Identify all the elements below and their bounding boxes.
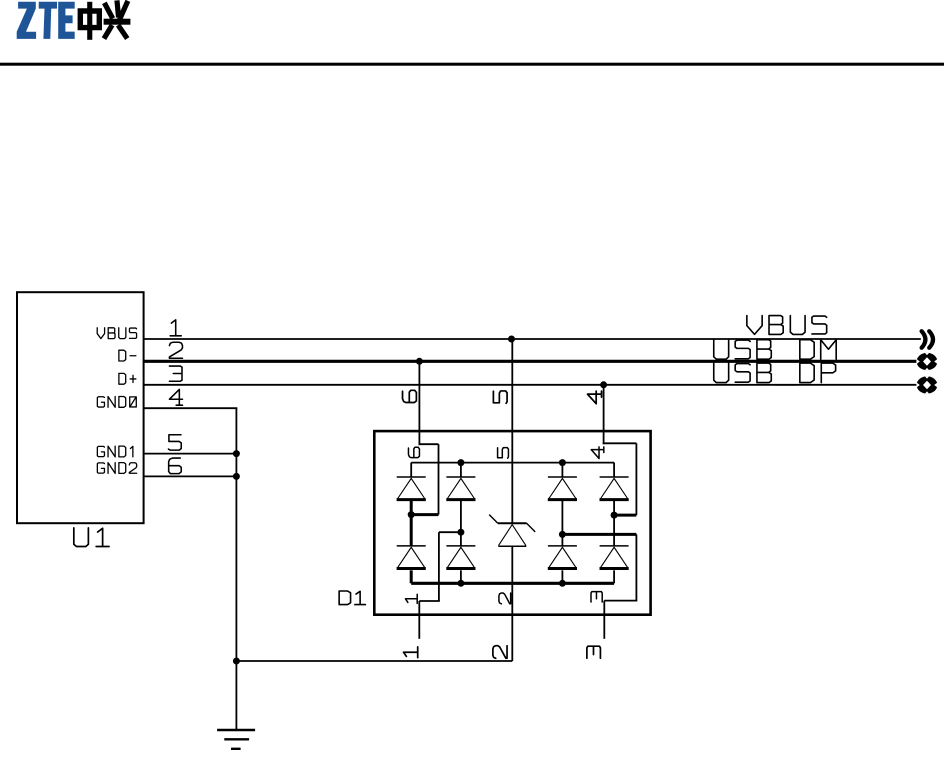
- D1 pin label 6 (inside): [408, 447, 419, 457]
- D1 pin number 6 (outside): [403, 390, 417, 402]
- U1 pin name D+: [119, 373, 136, 384]
- junction GND2: [233, 473, 240, 480]
- U1 pin name VBUS: [97, 328, 136, 339]
- diode D1-D upper: [600, 477, 629, 500]
- wire D1 pin4 jog down: [635, 443, 637, 515]
- wire D1 pin1 jog down: [438, 532, 440, 601]
- ESD array D1 body: [374, 431, 650, 615]
- wire USB_DM net U1 pin2 (thick): [144, 360, 917, 363]
- D1 pin number 5 (outside): [493, 391, 507, 403]
- diode D1-C upper: [548, 477, 577, 500]
- U1 pin number 6: [169, 458, 182, 474]
- wire D1 pin1 stub: [418, 601, 420, 639]
- wire GND0 from U1 pin4: [144, 407, 238, 409]
- net label VBUS: [747, 316, 827, 335]
- junction ground link: [233, 658, 240, 665]
- D1 pin label 1 (inside): [405, 594, 417, 603]
- ZTE logo letter E: [58, 2, 74, 39]
- net label USB_DM: [714, 340, 836, 362]
- ZTE logo letter T: [39, 2, 57, 39]
- D1 pin number 3 (outside): [587, 646, 601, 658]
- wire ground link to D1 pin2: [236, 660, 512, 662]
- D1 pin number 2 (outside): [493, 646, 507, 659]
- logo hanzi zhong: [78, 8, 102, 30]
- wire diode C cathode stub: [561, 463, 563, 477]
- U1 pin name GND1: [97, 446, 133, 457]
- wire D1 pin3 from diode C mid (thick): [562, 533, 636, 536]
- junction diode C mid: [559, 531, 566, 538]
- diode D1-B lower: [446, 546, 475, 569]
- junction USB_DP to D1 pin4: [600, 381, 607, 388]
- wire diode C mid vertical: [561, 500, 563, 546]
- logo hanzi xing: [105, 3, 127, 36]
- ground symbol: [217, 730, 255, 749]
- diode D1-D lower: [600, 546, 629, 569]
- wire diode C anode to bus: [561, 570, 563, 583]
- wire D1 pin2 vertical zener anode to ground link: [511, 546, 513, 661]
- D1 pin label 5 (inside): [498, 448, 509, 459]
- wire D1 pin1 from diode B mid: [439, 531, 461, 533]
- wire D1 pin3 jog down: [635, 534, 637, 600]
- D1 pin number 4 (outside): [587, 391, 601, 404]
- wire diode D anode to bus: [613, 570, 615, 583]
- off-page connector VBUS (output chevrons): [922, 331, 933, 348]
- U1 pin name GND2: [97, 463, 136, 474]
- U1 pin number 4: [169, 389, 182, 405]
- junction USB_DM to D1 pin6: [416, 358, 423, 365]
- wire D1 top bus: [411, 462, 614, 464]
- wire VBUS net U1 pin1 to off-page: [144, 338, 921, 340]
- wire D1 pin3 stub: [603, 601, 605, 639]
- wire D1 pin6 jog horizontal: [419, 443, 439, 445]
- header rule: [0, 63, 944, 66]
- off-page connector USB_DP (bidirectional): [916, 376, 937, 394]
- wire D1 pin6 vertical: [418, 361, 420, 445]
- junction top bus diode B: [457, 459, 464, 466]
- wire ground vertical: [235, 408, 237, 730]
- U1 pin name GND0: [97, 397, 136, 408]
- junction diode D mid: [611, 512, 618, 519]
- ZTE logo letter Z: [17, 2, 36, 39]
- D1 pin label 3 (inside): [591, 592, 602, 602]
- wire D1 pin6 to diode A mid (thick): [411, 513, 438, 516]
- diode D1-B upper: [446, 477, 475, 500]
- wire D1 pin5 vertical: [511, 339, 513, 523]
- wire diode A anode to bus (thick): [410, 570, 413, 583]
- diode D1-A lower: [397, 546, 426, 569]
- junction diode A mid: [408, 511, 415, 518]
- wire GND1 from U1 pin5: [144, 453, 237, 455]
- D1 pin label 4 (inside): [591, 447, 604, 459]
- junction bottom bus diode B: [457, 580, 464, 587]
- junction VBUS to D1 pin5: [508, 336, 515, 343]
- designator U1: [74, 528, 109, 547]
- designator D1: [339, 591, 365, 605]
- wire USB_DP net U1 pin3: [144, 384, 917, 386]
- diode D1-C lower: [548, 546, 577, 569]
- wire D1 pin4 jog horizontal: [603, 442, 637, 444]
- junction GND1: [233, 450, 240, 457]
- junction top bus diode C: [559, 459, 566, 466]
- zener diode D1 center: [489, 515, 535, 547]
- off-page connector USB_DM (bidirectional): [916, 353, 937, 371]
- D1 pin label 2 (inside): [499, 593, 511, 604]
- wire D1 pin4 to diode D mid (thick): [614, 514, 636, 517]
- wire diode B mid vertical: [460, 500, 462, 546]
- wire diode D mid vertical: [613, 500, 615, 546]
- junction bottom bus diode C: [559, 580, 566, 587]
- U1 pin name D-: [119, 350, 136, 361]
- connector U1 body: [17, 292, 144, 523]
- U1 pin number 5: [168, 435, 181, 450]
- U1 pin number 3: [169, 366, 182, 381]
- D1 pin number 1 (outside): [404, 647, 418, 658]
- wire D1 pin3 jog horizontal: [604, 600, 637, 602]
- wire D1 bottom bus (thick): [411, 582, 614, 585]
- net label USB_DP: [714, 363, 836, 385]
- wire GND2 from U1 pin6: [144, 475, 237, 477]
- wire diode B anode to bus: [460, 570, 462, 583]
- U1 pin number 1: [170, 320, 181, 336]
- wire diode A mid vertical (thick): [410, 500, 413, 546]
- wire diode A cathode stub: [410, 463, 412, 477]
- wire diode B cathode stub: [460, 463, 462, 477]
- junction diode B mid: [457, 529, 464, 536]
- wire D1 pin1 jog horizontal: [419, 600, 440, 602]
- diode D1-A upper: [397, 477, 426, 500]
- wire D1 pin6 jog down: [438, 444, 440, 514]
- wire D1 pin4 vertical: [603, 385, 605, 444]
- U1 pin number 2: [169, 342, 182, 358]
- wire diode D cathode stub: [613, 463, 615, 477]
